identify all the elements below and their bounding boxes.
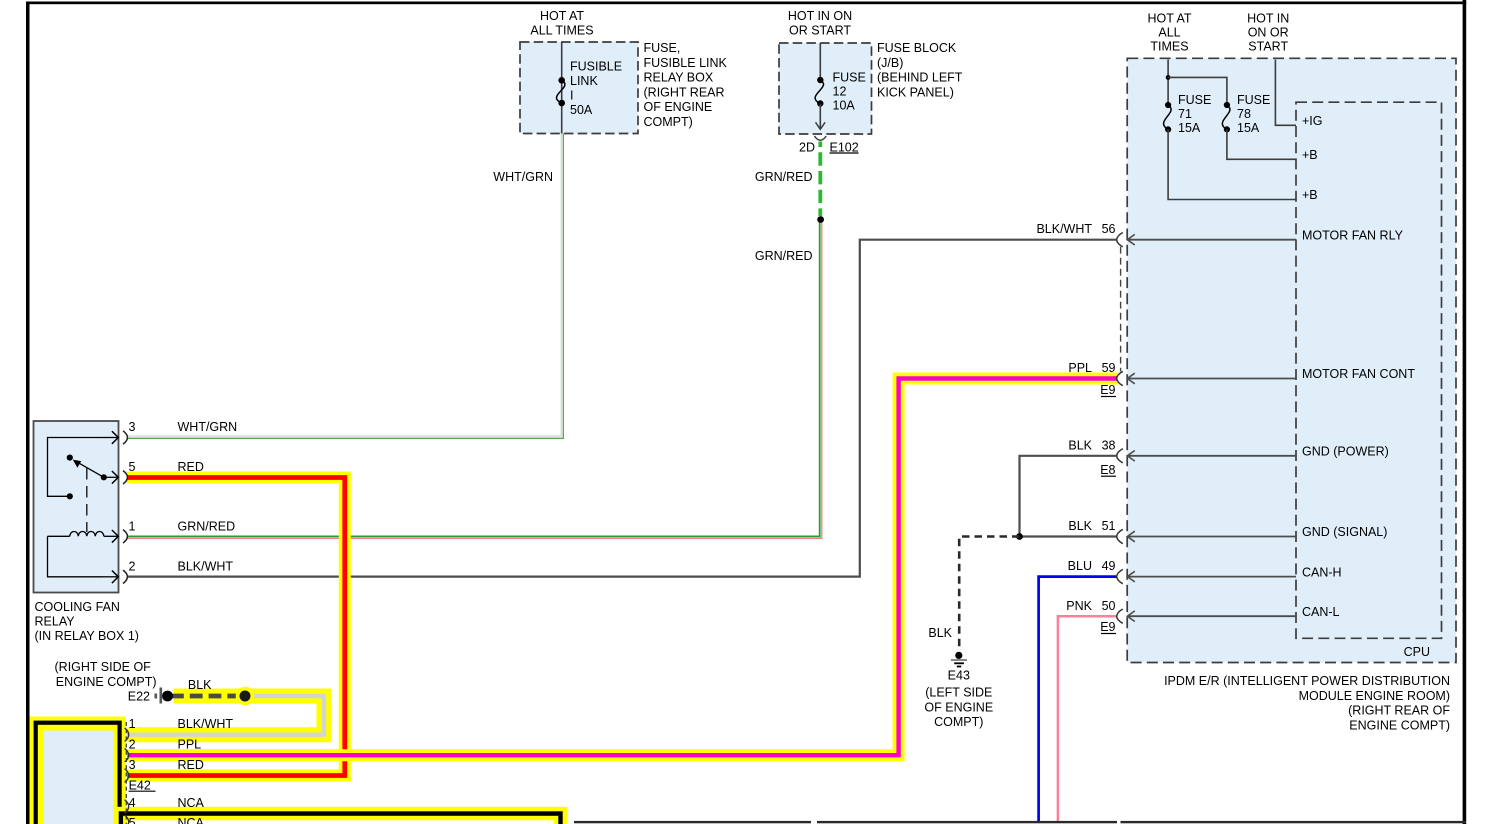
bottom box with highlight xyxy=(114,807,568,824)
fusible link box note xyxy=(644,41,728,129)
wire BLK 51 (splice to IPDM pin51) xyxy=(1020,535,1117,537)
E42 pin arcs xyxy=(125,728,129,824)
splice dot (E22/BLKWHT) with highlight ring xyxy=(236,687,255,706)
label E8 under pin 38 xyxy=(1100,463,1116,477)
wire GND (SIGNAL) xyxy=(1127,531,1296,542)
svg-text:I: I xyxy=(570,89,573,103)
svg-text:+B: +B xyxy=(1302,188,1318,202)
svg-text:OF ENGINE: OF ENGINE xyxy=(644,100,713,114)
fuse 12 output wire with down arrow xyxy=(816,104,826,130)
wire BLK/WHT (splice to E42 pin1) xyxy=(127,696,324,735)
svg-text:BLK: BLK xyxy=(1068,439,1092,453)
HOT IN ON OR START (left) xyxy=(788,9,852,38)
relay pin arrows at box edge xyxy=(103,431,118,583)
svg-text:3: 3 xyxy=(129,420,136,434)
svg-text:FUSE,: FUSE, xyxy=(644,41,681,55)
wire PNK (IPDM pin50 to bottom) xyxy=(1058,616,1117,821)
svg-text:CAN-L: CAN-L xyxy=(1302,605,1340,619)
relay box xyxy=(34,421,119,593)
E42 box with highlight xyxy=(30,717,126,824)
fuse 12 labels xyxy=(833,71,866,113)
svg-text:E8: E8 xyxy=(1100,463,1115,477)
svg-text:WHT/GRN: WHT/GRN xyxy=(178,420,238,434)
svg-text:RED: RED xyxy=(178,460,204,474)
HOT AT ALL TIMES (left) xyxy=(530,9,593,38)
wire CAN-L xyxy=(1127,611,1296,622)
svg-text:+B: +B xyxy=(1302,148,1318,162)
svg-text:ALL: ALL xyxy=(1158,26,1180,40)
svg-text:78: 78 xyxy=(1237,107,1251,121)
svg-text:ENGINE COMPT): ENGINE COMPT) xyxy=(1349,718,1450,732)
fusible link relay box (dashed, light blue) xyxy=(520,42,638,134)
relay pin arcs xyxy=(123,431,127,584)
ground E43 symbol xyxy=(951,652,967,667)
label BLK 51 xyxy=(1068,519,1115,533)
+B wire from fuse 78 xyxy=(1227,129,1296,159)
svg-text:TIMES: TIMES xyxy=(1150,39,1188,53)
fuse block box (dashed, light blue) xyxy=(779,43,872,134)
page border top xyxy=(26,2,1466,5)
label E9 under pin 50 xyxy=(1100,620,1116,634)
fusible link element symbol xyxy=(556,77,565,106)
label PPL 59 xyxy=(1068,361,1115,375)
svg-text:COMPT): COMPT) xyxy=(934,715,983,729)
+B wire from fuse 71 xyxy=(1168,129,1296,199)
fuse 12 element xyxy=(815,77,823,107)
svg-text:10A: 10A xyxy=(833,99,856,113)
svg-text:71: 71 xyxy=(1178,107,1192,121)
label PNK 50 xyxy=(1066,599,1115,613)
relay pin numbers and wire labels xyxy=(129,420,238,574)
svg-text:1: 1 xyxy=(129,717,136,731)
svg-text:15A: 15A xyxy=(1237,121,1260,135)
svg-text:BLK: BLK xyxy=(1068,519,1092,533)
E42 pins 4,5 NCA xyxy=(129,796,205,824)
svg-text:5: 5 xyxy=(129,460,136,474)
svg-text:51: 51 xyxy=(1102,519,1116,533)
fuse 78 element xyxy=(1222,102,1230,133)
ground E22 location label xyxy=(55,660,157,689)
svg-text:WHT/GRN: WHT/GRN xyxy=(493,170,553,184)
svg-text:BLK/WHT: BLK/WHT xyxy=(1036,222,1092,236)
svg-text:MOTOR FAN CONT: MOTOR FAN CONT xyxy=(1302,367,1415,381)
label BLK/WHT 56 xyxy=(1036,222,1115,236)
fusible link labels xyxy=(570,60,622,118)
ground E22 symbol xyxy=(155,688,173,704)
svg-text:PNK: PNK xyxy=(1066,599,1092,613)
page border bottom segments xyxy=(574,821,1466,823)
wire RED highlight band (relay pin5 to E42 pin3) xyxy=(127,478,345,776)
svg-text:2D: 2D xyxy=(799,141,815,155)
page border left xyxy=(26,2,30,824)
svg-text:FUSE: FUSE xyxy=(1178,93,1211,107)
svg-text:ON OR: ON OR xyxy=(1248,26,1289,40)
label BLU 49 xyxy=(1068,559,1116,573)
IPDM feed wire to fuses xyxy=(1166,60,1227,106)
svg-text:E42: E42 xyxy=(129,779,151,793)
+IG wire xyxy=(1275,60,1296,126)
wire BLK/WHT (relay pin2 to IPDM pin56) xyxy=(127,240,1116,577)
svg-text:(IN RELAY BOX 1): (IN RELAY BOX 1) xyxy=(35,629,139,643)
svg-text:+IG: +IG xyxy=(1302,114,1323,128)
relay pin5 stub xyxy=(104,476,107,478)
wire CAN-H xyxy=(1127,571,1296,582)
svg-text:HOT IN ON: HOT IN ON xyxy=(788,9,852,23)
svg-text:HOT IN: HOT IN xyxy=(1247,12,1289,26)
svg-text:49: 49 xyxy=(1102,559,1116,573)
svg-text:E22: E22 xyxy=(128,690,150,704)
fuse 71 labels xyxy=(1178,93,1211,135)
E42 connector dashed column xyxy=(125,722,127,824)
svg-text:BLK/WHT: BLK/WHT xyxy=(178,717,234,731)
svg-text:GND (SIGNAL): GND (SIGNAL) xyxy=(1302,525,1387,539)
svg-text:56: 56 xyxy=(1102,222,1116,236)
label E42 underlined xyxy=(129,779,156,793)
svg-text:50A: 50A xyxy=(570,103,593,117)
svg-text:GND (POWER): GND (POWER) xyxy=(1302,445,1389,459)
wire BLK dashed (splice to ground E43) xyxy=(959,537,1019,648)
wire MOTOR FAN CONT xyxy=(1127,373,1296,384)
svg-text:BLK: BLK xyxy=(188,678,212,692)
fuse 12 feed wire xyxy=(819,43,821,80)
fuse 71 element xyxy=(1164,102,1172,133)
splice dot BLK xyxy=(1016,533,1023,540)
label E43 xyxy=(924,669,993,730)
fuse block note xyxy=(877,41,963,99)
HOT IN ON OR START (right) xyxy=(1247,12,1289,54)
svg-text:GRN/RED: GRN/RED xyxy=(755,249,813,263)
svg-text:NCA: NCA xyxy=(178,796,205,810)
svg-text:FUSIBLE LINK: FUSIBLE LINK xyxy=(644,56,728,70)
IPDM name label xyxy=(1164,674,1450,732)
svg-text:(BEHIND LEFT: (BEHIND LEFT xyxy=(877,71,963,85)
svg-text:COOLING FAN: COOLING FAN xyxy=(35,600,120,614)
svg-text:FUSE: FUSE xyxy=(833,71,866,85)
svg-text:50: 50 xyxy=(1102,599,1116,613)
page border right xyxy=(1463,0,1467,824)
svg-text:OF ENGINE: OF ENGINE xyxy=(924,700,993,714)
svg-text:PPL: PPL xyxy=(178,738,202,752)
svg-text:BLK: BLK xyxy=(928,626,952,640)
svg-text:CPU: CPU xyxy=(1404,645,1430,659)
label E9 under pin 59 xyxy=(1100,383,1116,397)
svg-text:COMPT): COMPT) xyxy=(644,115,693,129)
wire BLK/WHT (E42 pin1) highlight band incl E22 ground branch xyxy=(127,696,324,735)
svg-text:RELAY BOX: RELAY BOX xyxy=(644,71,714,85)
splice dot GRN/RED xyxy=(817,216,824,223)
HOT AT ALL TIMES (right) xyxy=(1148,12,1192,54)
fuse 78 labels xyxy=(1237,93,1270,135)
svg-text:1: 1 xyxy=(129,520,136,534)
svg-text:NCA: NCA xyxy=(178,816,205,824)
svg-text:GRN/RED: GRN/RED xyxy=(178,520,236,534)
svg-text:E9: E9 xyxy=(1100,383,1115,397)
svg-text:(LEFT SIDE: (LEFT SIDE xyxy=(925,686,992,700)
svg-text:BLU: BLU xyxy=(1068,559,1092,573)
wire WHT/GRN (fusible link to relay pin3) xyxy=(127,134,563,439)
svg-text:2: 2 xyxy=(129,560,136,574)
label BLK 38 xyxy=(1068,439,1115,453)
IPDM connector dashed column E9/E8 xyxy=(1120,247,1122,372)
wire BLU (IPDM pin49 to bottom) xyxy=(1039,577,1117,822)
relay internal: pin3 branch xyxy=(48,438,104,497)
IPDM pin arcs xyxy=(1117,233,1123,624)
connector arc E102 at box bottom xyxy=(814,136,826,140)
svg-text:FUSE: FUSE xyxy=(1237,93,1270,107)
CPU inner box xyxy=(1296,102,1442,638)
svg-text:HOT AT: HOT AT xyxy=(1148,12,1192,26)
svg-text:ENGINE COMPT): ENGINE COMPT) xyxy=(56,675,157,689)
svg-text:(RIGHT REAR: (RIGHT REAR xyxy=(644,85,725,99)
wire GRN/RED solid (splice to relay pin1) xyxy=(127,220,822,539)
relay armature dashed link xyxy=(86,468,88,532)
wire GND (POWER) xyxy=(1127,451,1296,462)
E42 pin numbers and labels xyxy=(129,717,234,772)
wire PPL highlight band (E42 pin2 to IPDM pin59) xyxy=(127,379,1117,756)
svg-text:KICK PANEL): KICK PANEL) xyxy=(877,85,954,99)
svg-text:38: 38 xyxy=(1102,439,1116,453)
svg-text:LINK: LINK xyxy=(570,74,598,88)
svg-text:FUSIBLE: FUSIBLE xyxy=(570,60,622,74)
svg-text:4: 4 xyxy=(129,796,136,810)
svg-text:RED: RED xyxy=(178,758,204,772)
svg-text:15A: 15A xyxy=(1178,121,1201,135)
relay coil xyxy=(48,532,107,537)
svg-text:ALL TIMES: ALL TIMES xyxy=(530,24,593,38)
svg-text:GRN/RED: GRN/RED xyxy=(755,170,813,184)
relay switch contacts xyxy=(67,455,107,500)
svg-text:START: START xyxy=(1248,39,1288,53)
wire BLK dashed (E22 to splice) xyxy=(171,694,238,699)
svg-text:(J/B): (J/B) xyxy=(877,56,903,70)
svg-text:FUSE BLOCK: FUSE BLOCK xyxy=(877,41,957,55)
svg-text:BLK/WHT: BLK/WHT xyxy=(178,560,234,574)
relay internal: pin2 branch xyxy=(48,536,104,577)
wire MOTOR FAN RLY xyxy=(1127,234,1296,245)
label E102 underlined xyxy=(830,141,859,155)
svg-text:(RIGHT REAR OF: (RIGHT REAR OF xyxy=(1348,704,1450,718)
fusible link feed wire xyxy=(561,42,563,134)
svg-text:12: 12 xyxy=(833,85,847,99)
svg-text:CAN-H: CAN-H xyxy=(1302,565,1342,579)
svg-text:MOTOR FAN RLY: MOTOR FAN RLY xyxy=(1302,228,1404,242)
wire BLK 38 (IPDM pin38 to splice) xyxy=(1020,456,1117,537)
svg-text:E9: E9 xyxy=(1100,620,1115,634)
IPDM outer box xyxy=(1127,58,1456,662)
svg-text:2: 2 xyxy=(129,738,136,752)
relay name label xyxy=(35,600,139,643)
wire PPL core (E42 pin2 to IPDM pin59) xyxy=(127,379,1117,756)
svg-text:IPDM E/R (INTELLIGENT POWER DI: IPDM E/R (INTELLIGENT POWER DISTRIBUTION xyxy=(1164,674,1450,688)
svg-text:(RIGHT SIDE OF: (RIGHT SIDE OF xyxy=(55,660,152,674)
svg-text:3: 3 xyxy=(129,758,136,772)
svg-text:E43: E43 xyxy=(948,669,970,683)
wire GRN/RED dashed (E102 to splice) xyxy=(818,142,822,217)
svg-text:OR START: OR START xyxy=(789,24,851,38)
svg-text:5: 5 xyxy=(129,816,136,824)
svg-text:HOT AT: HOT AT xyxy=(540,9,584,23)
svg-text:MODULE ENGINE ROOM): MODULE ENGINE ROOM) xyxy=(1299,689,1450,703)
svg-text:RELAY: RELAY xyxy=(35,615,76,629)
wire RED core (relay pin5 to E42 pin3) xyxy=(127,478,344,776)
